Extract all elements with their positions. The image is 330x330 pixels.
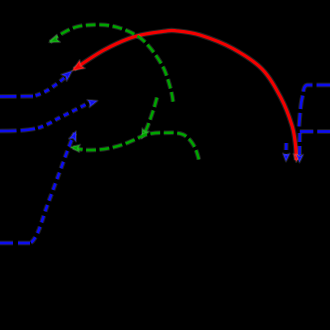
blue dashed vertical R4 (298, 133, 301, 157)
blue dashed step R1+R2 (299, 85, 330, 130)
blue dashed line B2 flat (0, 129, 35, 131)
green arrowhead G3 (70, 145, 80, 153)
green arc G1 casing (50, 25, 174, 105)
green arrowhead G1 (49, 35, 60, 43)
blue dashed line B2 rising casing (38, 102, 93, 128)
blue dashed line B1 rising (36, 75, 69, 96)
blue dashed line B2 rising (38, 102, 93, 128)
green steep segment G2 dashed (143, 98, 157, 137)
blue arrowhead B2 (87, 100, 97, 107)
blue dashed horizontal R3 casing (300, 129, 330, 134)
blue dashed line B3 rising (31, 133, 75, 243)
blue dashed vertical R5 casing (284, 143, 289, 155)
blue dashed vertical R4 casing (297, 133, 302, 157)
blue arrowhead B1 (61, 71, 72, 81)
red trajectory arc (74, 30, 296, 160)
blue dashed step R1+R2 casing (299, 85, 330, 130)
green wavy bottom curve G3 casing (73, 133, 199, 163)
green steep segment G2 casing (143, 98, 157, 137)
blue dashed vertical R5 (285, 143, 288, 155)
green arrowhead G2 (142, 128, 150, 138)
blue dashed line B3 flat casing (0, 241, 30, 246)
red arrowhead left end (72, 60, 85, 71)
blue dashed line B1 flat casing (0, 94, 33, 99)
blue arrowhead R5 (283, 153, 290, 161)
blue arrowhead R4 (296, 154, 303, 162)
blue dashed line B1 rising casing (36, 75, 69, 96)
red arrowhead bottom end (293, 154, 300, 162)
green wavy bottom curve G3 dashed (73, 133, 199, 163)
red trajectory arc casing (74, 30, 296, 160)
blue dashed line B1 flat (0, 95, 33, 98)
blue dashed horizontal R3 (300, 130, 330, 133)
green arc G1 dashed (50, 25, 174, 105)
blue dashed line B3 rising casing (31, 133, 75, 243)
blue arrowhead B3 (69, 131, 76, 141)
blue dashed line B3 flat (0, 242, 30, 245)
blue dashed line B2 flat casing (0, 129, 35, 131)
